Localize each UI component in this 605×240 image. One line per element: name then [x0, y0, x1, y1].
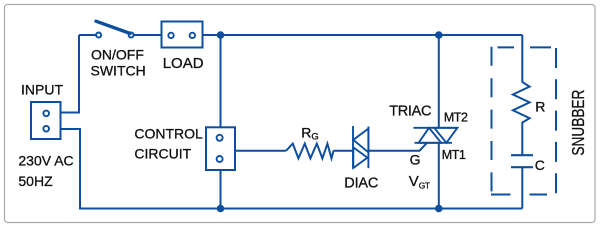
svg-text:SWITCH: SWITCH [91, 63, 146, 79]
svg-text:R: R [535, 99, 545, 115]
svg-text:CIRCUIT: CIRCUIT [134, 146, 191, 162]
svg-text:50HZ: 50HZ [18, 173, 53, 189]
svg-text:LOAD: LOAD [163, 55, 204, 72]
svg-text:MT1: MT1 [442, 148, 466, 162]
svg-text:CONTROL: CONTROL [134, 126, 203, 142]
svg-text:SNUBBER: SNUBBER [568, 89, 588, 155]
svg-text:230V AC: 230V AC [18, 153, 73, 169]
svg-text:DIAC: DIAC [344, 176, 378, 192]
svg-text:MT2: MT2 [444, 111, 468, 125]
svg-text:ON/OFF: ON/OFF [91, 47, 144, 63]
svg-text:TRIAC: TRIAC [389, 104, 431, 120]
svg-text:G: G [410, 152, 421, 168]
svg-text:INPUT: INPUT [21, 82, 63, 98]
svg-text:C: C [535, 157, 545, 173]
